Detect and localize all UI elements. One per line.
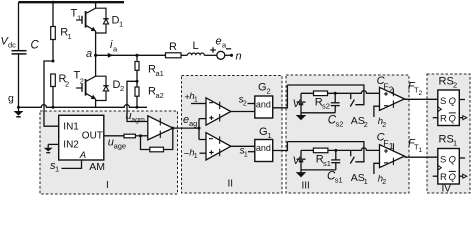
svg-text:2: 2 [65,79,69,88]
svg-text:1: 1 [453,139,457,148]
label CF2 (comparator name) [377,75,394,95]
resistor R (load) [166,41,182,58]
svg-text:and: and [256,143,271,153]
gate G1 (and) [255,126,273,162]
svg-text:OUT: OUT [82,130,103,141]
wire R to L [181,54,188,56]
stub Qbar output RS1 [459,174,467,178]
svg-text:S: S [440,96,446,107]
resistor op-amp I input [124,134,135,138]
node g junction dot [17,106,20,109]
node e_ag split [198,127,201,130]
svg-text:1: 1 [55,165,59,174]
wire supply rail upper with hop [301,91,380,94]
svg-text:e: e [216,36,222,48]
svg-text:2: 2 [382,122,386,129]
node a [94,54,97,57]
terminal n [225,51,242,63]
svg-text:2: 2 [267,87,271,96]
svg-text:Q: Q [449,172,457,183]
svg-text:2: 2 [453,81,457,90]
voltage source V (upper) [293,93,306,113]
svg-text:1: 1 [364,177,368,186]
svg-text:s2: s2 [322,102,330,111]
node top rail junction dot [52,1,55,4]
svg-text:RS: RS [439,76,454,88]
flip-flop RS1 [438,134,460,185]
svg-text:2: 2 [419,90,423,97]
svg-text:2: 2 [382,179,386,186]
svg-text:Q: Q [449,96,457,107]
ground main [14,107,24,117]
input +h1 [184,91,206,104]
wire FT1 [405,156,438,158]
input -h1 [184,147,206,160]
label FT1 [408,138,423,155]
resistor Ra1 [135,55,164,81]
node feedback tee [139,134,142,137]
input s1 to AM [50,160,82,174]
svg-text:s1: s1 [335,175,343,184]
svg-text:a2: a2 [156,91,164,100]
resistor Ra2 [135,81,164,107]
label h2 (lower) [378,173,387,186]
label u_age [108,137,126,151]
svg-text:IN2: IN2 [63,140,79,151]
stub Qbar output RS2 [459,116,467,120]
stub Q output RS2 [459,99,465,101]
svg-text:IN1: IN1 [63,122,79,133]
svg-text:1: 1 [194,153,198,160]
svg-text:a: a [86,48,92,60]
wire supply rail lower with hop [301,148,380,151]
svg-text:A: A [79,150,86,161]
wire midpoint tap to IN1 [44,61,59,126]
ground IN2 [44,144,53,152]
dashed region box I [40,111,178,194]
svg-text:I: I [106,180,109,191]
node Ra1 branch junction [135,54,138,57]
stub Q output RS1 [459,157,465,159]
transistor T1 (IGBT) [71,2,96,55]
dashed region box III [286,75,409,193]
voltage source V (lower) [293,150,306,170]
wire tap to u_agm [127,81,148,121]
wire phase output [96,54,166,56]
wire FT2 [405,98,438,100]
label FT2 [408,81,423,98]
svg-text:2: 2 [364,120,368,129]
node Ra divider tap [136,80,139,83]
svg-text:s2: s2 [336,120,344,129]
svg-text:s1: s1 [323,159,331,168]
svg-text:Q: Q [449,155,457,166]
wire e_ag to comparator inputs [199,119,206,140]
svg-text:2: 2 [120,84,124,93]
svg-text:1: 1 [194,97,198,104]
label CF1 (comparator name) [377,132,394,152]
node Cs2 top [334,92,337,95]
svg-text:G: G [258,82,267,94]
capacitor C [12,40,40,54]
wire h2 to inverting input (upper) [374,106,380,117]
wire OUT u_age [104,135,124,137]
svg-text:Q: Q [449,114,457,125]
svg-text:2: 2 [80,77,84,86]
svg-text:1: 1 [389,141,394,151]
label s2 and stub [239,95,255,108]
op-amp comparator CF1 (region III lower) [380,143,405,167]
svg-text:1: 1 [77,14,81,23]
ground upper RC [296,113,306,121]
wire h2 to inverting input (lower) [374,163,380,174]
svg-text:agm: agm [131,117,145,124]
wire comparator1 to G2 [231,111,255,113]
comparator K2 (lower, region II) [206,133,231,160]
svg-text:IV: IV [442,184,452,195]
label h2 (upper) [378,116,387,129]
dashed region box IV [427,74,470,193]
node op-amp I output [171,127,174,130]
node R1-R2 midpoint junction [52,60,55,63]
diode D2 [96,76,125,100]
label s1 and stub [240,146,255,159]
svg-text:G: G [259,126,268,138]
capacitor Cs1 [327,150,343,184]
wire comparator2 to G1 [231,145,255,147]
node R2 to g rail junction [52,106,55,109]
svg-text:n: n [236,51,242,63]
stub R input RS2 [433,117,438,119]
wire G2 output to control [273,85,288,108]
wire top dc rail [19,1,125,3]
block AM [59,115,105,173]
ground lower RC [296,170,306,178]
svg-text:a1: a1 [156,69,164,78]
transistor T2 (IGBT) [74,55,96,107]
comparator K1 (upper, region II) [206,98,231,125]
gate G2 (and) [255,82,273,119]
svg-text:L: L [193,40,199,52]
resistor Rs2 [314,91,330,111]
wire resistor to inverting input [135,135,147,137]
wire bottom rail upper RC [301,112,335,114]
svg-text:AM: AM [89,161,105,173]
wire IN2 ground stub [48,143,59,145]
svg-text:2: 2 [243,101,247,108]
svg-text:2: 2 [389,85,394,95]
svg-text:1: 1 [244,152,248,159]
wire e_ag [173,127,199,129]
diode D1 [96,8,124,33]
switch AS1 [350,150,367,186]
svg-text:1: 1 [419,147,423,154]
svg-text:dc: dc [8,40,16,49]
current arrow ia [108,39,118,58]
node Ra2 to g rail [136,106,139,109]
svg-text:II: II [228,179,234,190]
wire bottom rail lower RC [301,169,336,171]
svg-text:C: C [31,40,40,52]
feedback path op-amp I [141,128,173,149]
wire g rail with hops [17,105,147,108]
svg-text:1: 1 [68,32,72,41]
voltage source ea [210,36,231,60]
node Cs1 top [334,149,337,152]
op-amp comparator CF2 (region III upper) [380,87,405,110]
svg-text:1: 1 [119,20,123,29]
label Vdc [1,36,17,50]
resistor Rs1 [313,148,331,168]
inductor L [188,40,205,55]
stub R input RS1 [433,175,438,177]
svg-text:RS: RS [439,134,454,146]
wire L to source [204,54,217,56]
switch AS2 [350,93,367,129]
svg-text:R: R [440,172,447,183]
resistor R2 [51,73,69,107]
wire control AS1 [287,142,364,162]
svg-text:1: 1 [268,131,272,140]
svg-text:R: R [169,41,177,53]
wire left dc-link vertical [18,2,20,107]
svg-text:g: g [8,93,14,105]
svg-text:age: age [114,142,127,151]
label u_agm [126,110,145,124]
svg-text:R: R [440,114,447,125]
dashed region box II [182,76,283,194]
svg-text:S: S [440,155,446,166]
wire control AS2 [287,85,364,105]
svg-text:ag: ag [189,119,197,128]
resistor feedback op-amp I [150,147,164,152]
wire G1 output to control [273,142,288,151]
flip-flop RS2 [438,76,460,126]
op-amp U1 (region I) [148,116,173,140]
resistor R1 [51,2,72,61]
svg-text:III: III [302,180,310,191]
label e_ag [183,114,197,128]
svg-text:and: and [256,99,271,109]
capacitor Cs2 [328,93,344,128]
